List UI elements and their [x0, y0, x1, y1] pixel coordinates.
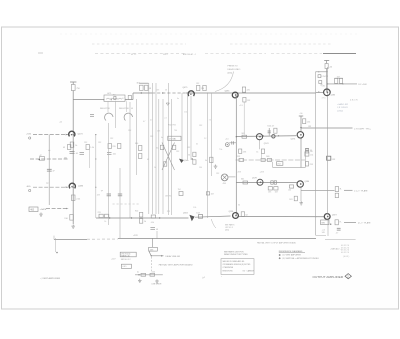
wire main top rail c: [186, 92, 316, 94]
svg-text:4X4: 4X4: [223, 183, 226, 185]
resistor R34: [318, 75, 321, 78]
ground (line driver 2): [155, 279, 159, 283]
svg-text:120: 120: [201, 88, 204, 90]
junction (Q4 collector): [236, 96, 237, 97]
wire Q11 emitter: [300, 187, 302, 201]
resistor R36: [141, 273, 146, 276]
svg-text:4.3k: 4.3k: [151, 222, 154, 224]
resistor R29: [335, 187, 338, 192]
svg-text:VALUES IN OHMS AND MI-: VALUES IN OHMS AND MI-: [223, 260, 245, 263]
resistor R38a: [99, 214, 103, 217]
resistor R25: [303, 119, 306, 124]
resistor R38: [139, 212, 142, 217]
wire bottom rail left: [54, 238, 87, 240]
capacitor C7: [232, 141, 234, 144]
svg-text:AND DELAY · 4: AND DELAY · 4: [183, 53, 196, 56]
diode CR2: [166, 103, 169, 105]
svg-text:DC BAL: DC BAL: [169, 138, 177, 141]
svg-text:1.8k: 1.8k: [322, 86, 325, 88]
svg-text:5% · CARBON: 5% · CARBON: [243, 269, 255, 272]
capacitor C9: [101, 191, 111, 196]
wire curve down: [211, 219, 216, 228]
transistor Q1: [69, 131, 75, 136]
capacitor C4: [107, 153, 116, 156]
resistor R21: [193, 160, 196, 164]
resistor R42: [179, 192, 183, 196]
svg-text:301: 301: [137, 83, 140, 85]
wire Q9 to CRT row: [301, 127, 353, 129]
resistor R13: [108, 144, 111, 149]
wire vertical bus 13: [207, 93, 209, 218]
svg-text:750: 750: [310, 151, 313, 153]
resistor R27c stack: [305, 148, 308, 153]
svg-text:⟨3⟩ VERTICAL × AFTERDEFLECTIO: ⟨3⟩ VERTICAL × AFTERDEFLECTION BLK: [282, 257, 319, 260]
svg-text:RESISTORS: RESISTORS: [223, 270, 234, 272]
wire L-box drop 2: [126, 101, 128, 112]
node trigger label box: [29, 207, 38, 212]
wire Q11 output: [301, 189, 335, 191]
wire vertical bus 2: [135, 99, 137, 175]
svg-text:+50: +50: [329, 67, 332, 69]
svg-text:62: 62: [147, 159, 149, 161]
wire +12V stub: [151, 238, 153, 247]
svg-text:8.2k 4.7: 8.2k 4.7: [268, 126, 275, 128]
resistor R44: [305, 152, 309, 156]
wire vertical bus 1: [129, 102, 131, 218]
wire R12 drop: [89, 150, 91, 169]
junction (rail x149): [148, 92, 149, 93]
node -SIG input: [26, 186, 31, 192]
svg-text:1.2k: 1.2k: [193, 207, 196, 209]
svg-text:47: 47: [53, 170, 55, 172]
resistor R9: [203, 85, 206, 90]
svg-text:250: 250: [288, 189, 291, 191]
resistor R16: [139, 154, 142, 159]
svg-text:+: +: [221, 276, 222, 278]
note reference item 1: [279, 254, 281, 256]
pot BW box: [321, 220, 329, 225]
svg-text:Q596: Q596: [229, 211, 234, 213]
junction (switch node): [151, 255, 152, 256]
wire mid input row: [30, 158, 68, 160]
inductor L475 box: [104, 95, 125, 101]
junction (x96 y134): [95, 134, 96, 135]
svg-text:CROFARADS UNLESS (K) NOTED: CROFARADS UNLESS (K) NOTED: [223, 263, 252, 266]
wire rail to peaking coil: [73, 99, 104, 101]
wire coil centre tap: [114, 101, 116, 128]
resistor R33: [325, 64, 328, 69]
wire top right drop: [326, 69, 328, 93]
wire vertical bus 14: [210, 93, 212, 176]
svg-text:( 4 6 5 ): ( 4 6 5 ): [343, 256, 350, 258]
junction (Q1 base): [73, 134, 74, 135]
resistor R1: [40, 157, 45, 161]
resistor R41: [241, 212, 244, 217]
transistor Q5 (selected) outline: [105, 113, 113, 120]
svg-text:1XX 794: 1XX 794: [165, 196, 172, 198]
resistor R38b: [105, 214, 109, 217]
svg-text:SEE PARTS LIST FOR: SEE PARTS LIST FOR: [224, 250, 244, 253]
wire bias column x96: [95, 135, 97, 218]
svg-text:68: 68: [149, 88, 151, 90]
node +SIG input: [26, 134, 31, 140]
wire Q8 emitter drop: [259, 140, 261, 149]
wire R10 column: [243, 102, 245, 134]
resistor R29a: [271, 181, 273, 184]
wire driver row: [236, 135, 296, 138]
svg-text:1k: 1k: [256, 151, 258, 153]
svg-text:+GAIN 1.852: +GAIN 1.852: [337, 103, 348, 106]
wire (top interconnect dashes left): [92, 43, 186, 45]
svg-text:2.2k 1W: 2.2k 1W: [321, 76, 328, 78]
wire right bus corner: [316, 234, 326, 236]
svg-text:68: 68: [131, 108, 133, 110]
ground (line driver 1): [138, 279, 142, 283]
wire line-driver row: [135, 274, 163, 276]
transistor Q11: [297, 181, 303, 187]
resistor R31d: [289, 185, 293, 188]
wire to +50V tap: [328, 83, 357, 85]
wire arrow to delay line: [152, 255, 164, 257]
wire bottom rail: [118, 238, 316, 240]
svg-text:750: 750: [174, 130, 177, 132]
svg-text:5k: 5k: [205, 160, 207, 162]
wire lower mid rail 2: [195, 216, 231, 217]
junction (rail x159): [159, 217, 160, 218]
wire Q9 collector up: [300, 116, 302, 132]
resistor R10: [242, 87, 245, 92]
svg-text:4X 1.2: 4X 1.2: [131, 54, 136, 56]
resistor R29b: [274, 181, 276, 184]
resistor R43: [206, 192, 209, 195]
ground (cross section): [214, 165, 218, 169]
svg-text:120: 120: [152, 271, 155, 273]
resistor R2: [71, 85, 75, 91]
resistor R27a stack: [239, 149, 242, 153]
wire vertical bus 9: [170, 99, 172, 215]
wire vertical bus 5: [155, 83, 157, 214]
junction (lower rail left): [131, 217, 132, 218]
svg-text:Q576: Q576: [291, 139, 296, 141]
capacitor C8: [336, 228, 341, 234]
junction (rail x168): [168, 92, 169, 93]
resistor R15: [139, 146, 142, 151]
relay box K1: [149, 247, 158, 251]
svg-text:75Ω 794: 75Ω 794: [168, 125, 177, 127]
junction (Q13 in): [318, 91, 319, 92]
svg-text:OTHERWISE: OTHERWISE: [223, 267, 234, 269]
varactor CR1: [272, 135, 275, 138]
junction (x96 y187): [95, 187, 96, 188]
svg-text:LINE DRIVE: LINE DRIVE: [152, 284, 163, 286]
pot R27 box: [277, 162, 283, 166]
wire bottom rail dashes: [87, 238, 118, 240]
svg-text:SELECTED: SELECTED: [100, 108, 111, 110]
svg-text:SELECTED: SELECTED: [119, 108, 130, 110]
wire -SIG to Q2: [33, 186, 68, 188]
resistor R6b: [114, 96, 116, 99]
resistor R35: [335, 78, 338, 83]
note delay line text: [228, 66, 242, 75]
svg-text:4.7: 4.7: [336, 232, 339, 234]
transistor Q15: [233, 213, 239, 219]
power tap (R7): [139, 82, 148, 84]
svg-text:+GAIN ADJ →: +GAIN ADJ →: [330, 248, 342, 251]
resistor R4: [71, 195, 75, 200]
wire (top bus solid segment): [323, 53, 356, 55]
svg-text:PRESS TO: PRESS TO: [228, 66, 238, 68]
svg-text:BW: BW: [322, 223, 325, 225]
wire (scan noise row): [60, 33, 360, 35]
resistor R31c: [274, 187, 278, 190]
resistor R14: [118, 144, 121, 149]
power tap T: [299, 115, 303, 117]
resistor R11: [68, 145, 71, 150]
svg-text:Q574: Q574: [264, 143, 269, 145]
resistor R3: [70, 142, 74, 147]
svg-text:68: 68: [156, 229, 158, 231]
svg-text:220: 220: [247, 90, 250, 92]
connector J2: [221, 174, 228, 181]
svg-text:301: 301: [241, 133, 244, 135]
junction (R32 node): [330, 224, 331, 225]
svg-text:150: 150: [199, 167, 202, 169]
junction (driver left): [236, 136, 237, 137]
svg-text:1k: 1k: [144, 221, 146, 223]
resistor R7b: [145, 85, 148, 90]
svg-text:4XX: 4XX: [150, 249, 154, 251]
power feed +50V: [324, 61, 329, 64]
svg-text:4.7: 4.7: [143, 121, 145, 123]
resistor R6: [128, 95, 131, 99]
wire Q9 emitter drop: [300, 139, 302, 168]
wire right bus 1: [315, 72, 317, 235]
svg-text:+SIG: +SIG: [26, 134, 31, 136]
wire vertical bus 11: [187, 93, 189, 160]
svg-text:WAVE 4.65: WAVE 4.65: [121, 255, 130, 258]
transistor Q12: [324, 214, 330, 220]
svg-text:PARTIAL VERT AMPLIFIER BOAR: PARTIAL VERT AMPLIFIER BOARD: [159, 264, 193, 267]
junction (y216 x315): [315, 216, 316, 217]
note gain chart rows: [341, 245, 349, 254]
thermistor RT1: [327, 156, 331, 160]
assembly table box 2: [121, 264, 131, 268]
resistor R17: [160, 145, 163, 149]
svg-text:1.5k: 1.5k: [310, 154, 313, 156]
wire vertical bus 7: [162, 99, 164, 214]
svg-text:.001: .001: [112, 154, 116, 156]
junction (Q9 collector): [300, 127, 301, 128]
wire bottom-left stub: [55, 238, 57, 252]
wire C11 drop: [156, 231, 158, 239]
capacitor C2: [70, 152, 79, 156]
svg-text:7.5k: 7.5k: [219, 149, 222, 151]
svg-text:4x: 4x: [161, 137, 163, 139]
transistor Q7: [179, 159, 184, 163]
svg-text:43: 43: [63, 147, 65, 149]
svg-text:SEMICONDUCTOR TYPES: SEMICONDUCTOR TYPES: [224, 254, 248, 256]
junction (coil node 2): [111, 99, 112, 100]
resistor R19: [163, 162, 166, 166]
resistor R26: [239, 159, 244, 162]
pot DC BAL box: [168, 136, 181, 140]
wire P1 to bus: [229, 142, 236, 144]
resistor R32: [335, 220, 338, 225]
capacitor C1: [47, 169, 55, 172]
transistor Q2: [69, 183, 75, 188]
junction (Q2 base): [73, 187, 74, 188]
resistor R27d stack: [305, 162, 308, 166]
svg-text:Q473: Q473: [78, 134, 84, 136]
svg-text:DELAY LINE 465: DELAY LINE 465: [166, 255, 180, 258]
svg-text:▸ L-T · PLATE: ▸ L-T · PLATE: [358, 222, 371, 225]
resistor R31: [294, 196, 297, 201]
svg-text:◁ VERT AMPLIFIER: ◁ VERT AMPLIFIER: [40, 277, 60, 280]
transistor Q9: [297, 132, 303, 138]
svg-text:SER 4.6 5.2: SER 4.6 5.2: [121, 259, 131, 261]
wire left column: [72, 91, 74, 225]
transistor Q3: [188, 91, 194, 96]
resistor R28: [243, 181, 248, 184]
svg-text:47: 47: [40, 155, 42, 157]
svg-text:Q578: Q578: [252, 178, 257, 180]
resistor R30: [335, 193, 338, 197]
resistor R26c: [267, 159, 271, 162]
svg-text:(465): (465): [228, 72, 233, 74]
resistor R27b stack: [261, 149, 264, 153]
svg-text:Q583: Q583: [330, 94, 335, 96]
capacitor C5: [268, 128, 271, 136]
resistor R38c: [151, 215, 155, 218]
wire dashed drop: [151, 257, 153, 274]
svg-text:Q597: Q597: [332, 214, 337, 216]
resistor R39: [139, 219, 142, 224]
svg-text:62: 62: [188, 154, 190, 156]
wire left bias vertical: [48, 135, 50, 205]
wire output row: [236, 182, 296, 184]
svg-text:4x: 4x: [137, 271, 139, 273]
junction (Q9 emitter node): [300, 138, 301, 139]
svg-text:-SIG: -SIG: [26, 186, 31, 188]
svg-text:Q586: Q586: [304, 181, 309, 183]
wire main top rail b (dashed): [152, 92, 186, 94]
note see parts list: [224, 250, 248, 256]
resistor R5: [70, 215, 74, 221]
junction (bottom-left node): [56, 252, 58, 254]
resistor R8: [197, 85, 200, 90]
svg-text:+1.9: +1.9: [239, 105, 243, 107]
svg-text:220: 220: [112, 146, 115, 148]
svg-text:301: 301: [241, 178, 244, 180]
transistor Q14: [189, 215, 194, 221]
svg-text:1k: 1k: [156, 147, 158, 149]
junction (Q8 out): [263, 135, 264, 136]
wire +GATE row: [46, 208, 69, 210]
ground (left bottom): [39, 213, 43, 217]
svg-text:+5.0: +5.0: [225, 138, 229, 140]
wire rail into Q13: [316, 91, 324, 93]
svg-text:DELAY LINE 1: DELAY LINE 1: [228, 68, 242, 71]
note parts list small: [225, 223, 235, 231]
wire interstage row: [236, 159, 306, 161]
wire cross diagonal 2: [162, 143, 175, 171]
svg-text:Q1xx: Q1xx: [184, 160, 188, 162]
svg-text:62: 62: [238, 204, 240, 206]
wire interstage right vertical: [305, 148, 307, 167]
svg-text:+12V: +12V: [111, 259, 116, 261]
node tick (x49 y150): [48, 149, 50, 151]
transistor Q10: [257, 179, 263, 185]
resistor R34b: [319, 81, 322, 84]
svg-text:1k: 1k: [154, 167, 156, 169]
wire vertical bus 6: [158, 99, 160, 214]
wire Q12 emitter drop: [327, 219, 329, 236]
resistor R24: [274, 128, 277, 133]
svg-text:1k: 1k: [104, 221, 106, 223]
power feed +55V: [70, 82, 76, 85]
svg-text:680: 680: [64, 158, 67, 160]
svg-text:750: 750: [113, 95, 116, 97]
wire L-box drop 1: [107, 101, 109, 112]
svg-text:4 6 5 1 2 4: 4 6 5 1 2 4: [341, 252, 349, 254]
junction (row160 x39): [39, 159, 40, 160]
svg-text:794: 794: [178, 189, 181, 191]
wire mid drop 1: [107, 123, 109, 225]
svg-text:+24: +24: [59, 122, 62, 124]
svg-text:Q483: Q483: [78, 185, 84, 187]
wire Q4 collector drop: [235, 97, 237, 216]
wire vertical bus 10: [181, 93, 183, 160]
wire top-right rail: [315, 71, 327, 73]
wire vertical bus 3: [148, 83, 150, 214]
svg-text:.01: .01: [75, 153, 78, 155]
junction (rail x207): [207, 92, 208, 93]
resistor R12: [86, 145, 89, 150]
wire (top bus dashes mid): [205, 53, 266, 55]
capacitor C11: [150, 228, 158, 232]
wire bottom-right faint rail: [325, 239, 356, 241]
resistor R20: [193, 152, 196, 156]
node (top-left tick): [38, 52, 43, 54]
svg-text:1k: 1k: [75, 145, 77, 147]
svg-text:L475: L475: [107, 93, 111, 95]
capacitor C2b: [80, 153, 85, 155]
resistor R31b: [268, 187, 272, 190]
junction (rail x109): [109, 217, 110, 218]
capacitor C10: [118, 194, 122, 196]
svg-text:62: 62: [196, 144, 198, 146]
wire lower mid rail: [96, 217, 189, 219]
svg-text:4x: 4x: [177, 98, 179, 100]
wire to lower CRT plate: [344, 222, 356, 224]
resistor R26b: [261, 159, 265, 162]
svg-text:945: 945: [322, 232, 325, 234]
svg-text:330 4: 330 4: [163, 54, 168, 56]
wire interstage bottom drop: [272, 162, 274, 168]
svg-text:1.5k: 1.5k: [184, 112, 187, 114]
svg-text:C,R 1.85241: C,R 1.85241: [337, 107, 348, 109]
svg-text:2.2: 2.2: [164, 118, 166, 120]
transistor Q4: [232, 92, 238, 98]
capacitor C6: [305, 149, 313, 152]
junction (x96 y159): [95, 158, 96, 159]
svg-text:910: 910: [135, 143, 138, 145]
resistor R40: [198, 215, 202, 219]
svg-text:2.2: 2.2: [204, 138, 206, 140]
svg-text:4 7 4: 4 7 4: [322, 97, 326, 99]
assembly table box 1: [120, 252, 136, 257]
wire interstage drop left: [260, 149, 262, 161]
